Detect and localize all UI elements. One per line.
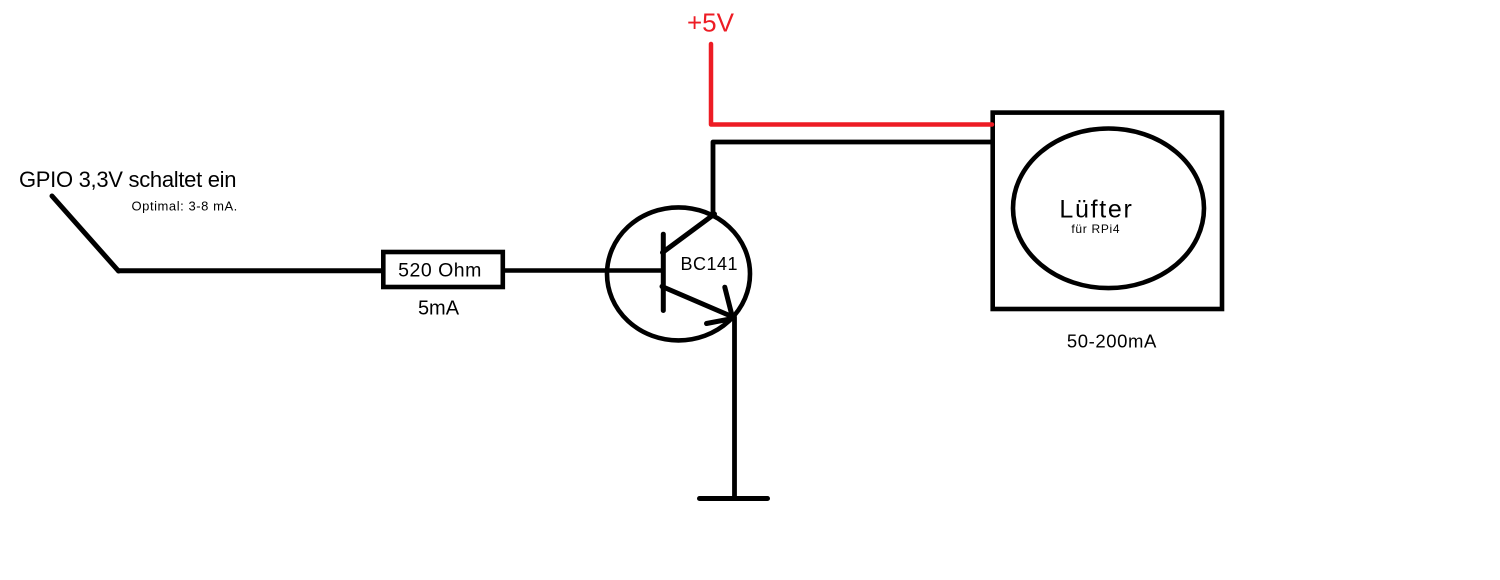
svg-text:für RPi4: für RPi4 bbox=[1071, 222, 1120, 236]
ground bbox=[700, 496, 768, 501]
fan M1 outer box bbox=[993, 113, 1222, 309]
wire GPIO diagonal bbox=[52, 196, 119, 271]
wire resistor R1 to base of Q1 bbox=[505, 268, 661, 273]
wire emitter of Q1 down to ground bbox=[732, 317, 737, 497]
svg-text:+5V: +5V bbox=[687, 8, 735, 38]
transistor Q1 emitter stroke bbox=[662, 287, 733, 318]
svg-text:Optimal: 3-8 mA.: Optimal: 3-8 mA. bbox=[132, 198, 238, 213]
wire +5V red down and right to fan bbox=[711, 44, 992, 125]
svg-text:5mA: 5mA bbox=[418, 298, 460, 320]
resistor R1 520 Ohm bbox=[383, 252, 503, 287]
svg-text:520 Ohm: 520 Ohm bbox=[398, 260, 482, 282]
svg-text:50-200mA: 50-200mA bbox=[1067, 331, 1157, 352]
svg-text:Lüfter: Lüfter bbox=[1059, 196, 1133, 224]
wire GPIO to resistor R1 bbox=[119, 268, 382, 273]
svg-text:BC141: BC141 bbox=[681, 254, 739, 274]
transistor Q1 circle bbox=[607, 207, 750, 340]
wire collector of Q1 up and right to fan bbox=[713, 142, 991, 215]
transistor Q1 collector stroke bbox=[663, 214, 715, 253]
transistor Q1 emitter arrow barb lower bbox=[707, 319, 732, 324]
svg-text:GPIO 3,3V schaltet ein: GPIO 3,3V schaltet ein bbox=[19, 167, 236, 192]
transistor Q1 base bar bbox=[661, 234, 666, 310]
fan M1 rotor circle bbox=[1013, 129, 1204, 289]
transistor Q1 emitter arrow barb upper bbox=[725, 287, 733, 317]
